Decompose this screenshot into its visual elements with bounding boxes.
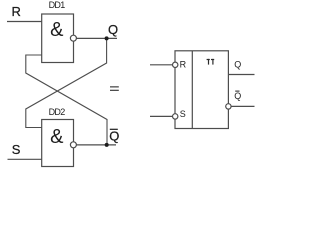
wire S input xyxy=(8,158,42,160)
wire Q-bar output of TT xyxy=(231,105,254,107)
divider line of TT box xyxy=(191,51,193,129)
svg-text:&: & xyxy=(50,19,64,41)
overline of Q-bar xyxy=(110,129,118,130)
inversion bubble S input xyxy=(173,114,178,119)
wire DD2 output to Q-bar xyxy=(76,144,116,146)
label TT xyxy=(207,59,215,65)
NAND gate DD2 box xyxy=(42,120,74,167)
flip-flop TT box xyxy=(175,51,228,129)
node Q junction dot xyxy=(105,36,109,40)
inversion bubble R input xyxy=(173,62,178,67)
wire DD1 output to Q xyxy=(76,37,117,39)
overline of Q-bar (TT) xyxy=(235,91,239,92)
wire R input xyxy=(7,21,42,23)
wire feedback from Q node to DD2 input 1 xyxy=(26,39,107,128)
NAND gate DD1 box xyxy=(42,14,74,63)
node Q-bar junction dot xyxy=(105,143,109,147)
svg-text:R: R xyxy=(12,4,21,19)
inversion bubble Q-bar output xyxy=(226,104,231,109)
svg-text:S: S xyxy=(180,109,186,119)
svg-text:DD1: DD1 xyxy=(49,0,66,10)
svg-text:Q: Q xyxy=(108,22,118,37)
svg-text:Q: Q xyxy=(109,128,119,143)
inversion bubble DD1 output xyxy=(70,35,76,41)
wire R input to TT xyxy=(150,64,173,66)
svg-text:&: & xyxy=(50,126,64,148)
label = (equivalence sign) xyxy=(110,86,119,87)
RS flip-flop symbol (right) xyxy=(150,51,255,129)
wire feedback from Q-bar node to DD1 input 2 xyxy=(26,55,107,145)
svg-text:DD2: DD2 xyxy=(49,107,66,117)
wire S input to TT xyxy=(150,115,173,117)
inversion bubble DD2 output xyxy=(70,142,76,148)
svg-text:Q: Q xyxy=(234,91,241,101)
wire Q output of TT xyxy=(228,74,254,76)
svg-text:R: R xyxy=(180,60,187,70)
svg-text:Q: Q xyxy=(234,60,241,70)
svg-text:S: S xyxy=(12,142,21,157)
